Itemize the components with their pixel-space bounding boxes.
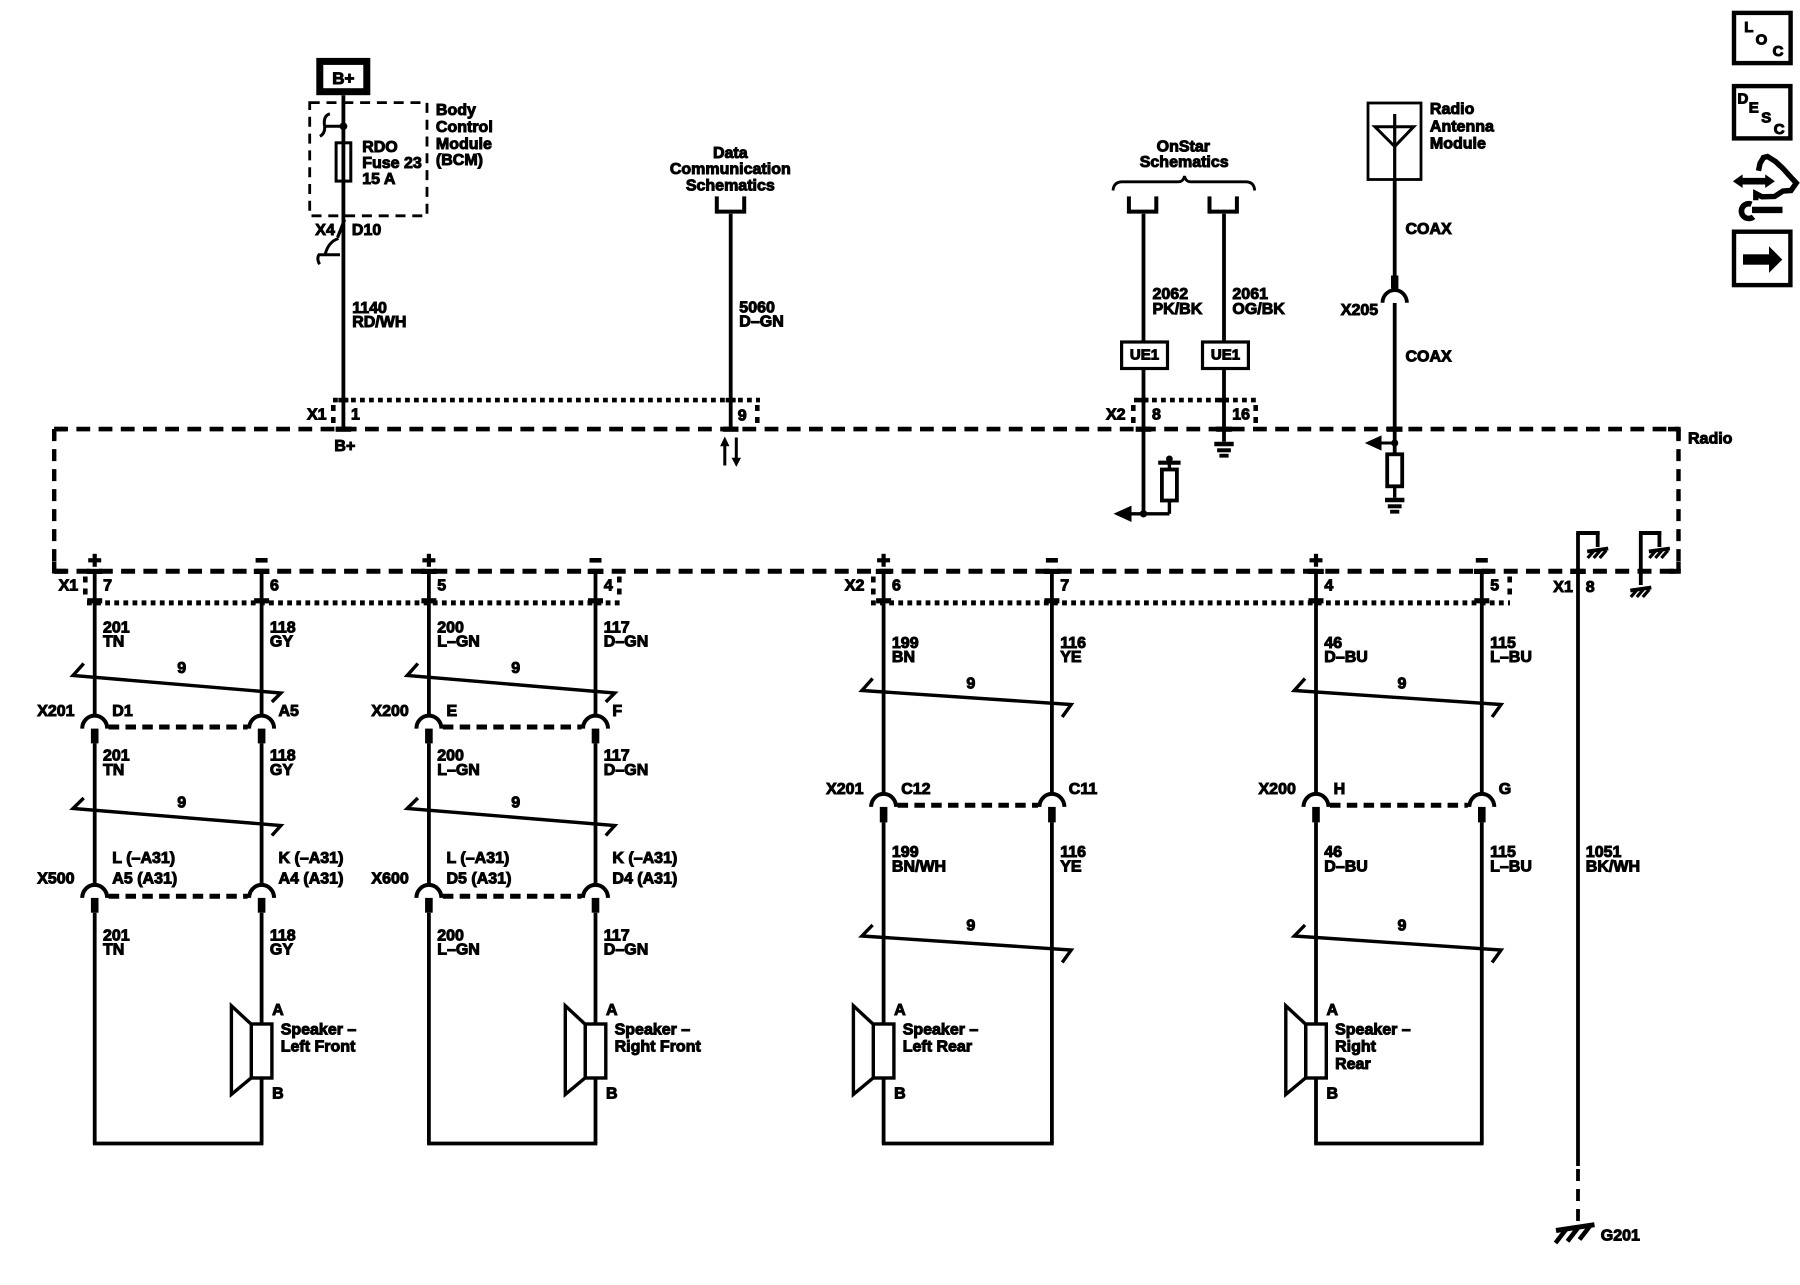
svg-text:8: 8	[1152, 407, 1161, 424]
svg-text:Module: Module	[436, 136, 492, 153]
pin 6 at x=261.6	[254, 560, 279, 603]
wire labels row2	[103, 748, 296, 779]
wire labels row3	[437, 927, 648, 958]
connector strip X2 top	[1106, 398, 1258, 432]
connector X4 pin D10	[315, 220, 381, 265]
svg-text:9: 9	[966, 675, 975, 692]
svg-text:Body: Body	[436, 102, 476, 119]
svg-text:H: H	[1334, 781, 1346, 798]
speaker ['Speaker –', 'Right Front']	[565, 1002, 701, 1103]
off-page connector to OnStar (left)	[1129, 196, 1156, 213]
svg-text:G201: G201	[1601, 1227, 1640, 1244]
svg-text:X200: X200	[1259, 781, 1296, 798]
Radio label	[1688, 430, 1733, 447]
twisted pair symbol 2	[1294, 918, 1501, 963]
svg-text:S: S	[1761, 110, 1771, 127]
svg-text:X600: X600	[371, 870, 408, 887]
battery positive terminal B+	[320, 61, 367, 91]
connector X200 pins E/F	[371, 703, 622, 744]
circuit wires 201/118 upper	[95, 574, 262, 717]
wire 2062 PK/BK	[1144, 214, 1203, 342]
connector X600	[371, 850, 677, 913]
svg-text:C11: C11	[1069, 781, 1098, 798]
svg-text:E: E	[447, 703, 458, 720]
connector strip X1 bottom (pins 7,6,5,4)	[59, 577, 622, 603]
svg-text:Schematics: Schematics	[1140, 154, 1229, 171]
svg-text:Left Rear: Left Rear	[903, 1039, 972, 1056]
radio internal ground B	[1639, 533, 1670, 585]
svg-text:Schematics: Schematics	[686, 178, 775, 195]
svg-text:9: 9	[177, 794, 186, 811]
svg-text:Fuse 23: Fuse 23	[362, 155, 422, 172]
svg-text:16: 16	[1232, 407, 1250, 424]
wire label 1140 RD/WH	[352, 300, 406, 331]
antenna input internal: arrow resistor ground	[1365, 431, 1405, 512]
svg-text:Antenna: Antenna	[1430, 118, 1494, 135]
svg-text:8: 8	[1586, 579, 1595, 596]
svg-text:BK/WH: BK/WH	[1586, 858, 1640, 875]
pin 7 at x=94.7	[87, 554, 112, 604]
svg-text:5: 5	[1490, 577, 1499, 594]
svg-text:X2: X2	[1106, 407, 1126, 424]
wires lower	[95, 913, 262, 1144]
svg-text:UE1: UE1	[1211, 346, 1240, 363]
wire labels row1	[1324, 635, 1532, 666]
brace	[1113, 176, 1255, 191]
svg-text:9: 9	[1397, 918, 1406, 935]
Radio Antenna Module box	[1368, 103, 1421, 180]
circuit wires 46/115 upper	[1316, 574, 1482, 794]
svg-text:X500: X500	[37, 870, 74, 887]
svg-text:B+: B+	[334, 438, 355, 455]
twisted pair symbol 1	[862, 675, 1071, 717]
pin 7 at x=1051.9	[1044, 560, 1069, 603]
ground at pin 16 inside radio	[1214, 431, 1233, 456]
svg-text:X1: X1	[59, 577, 79, 594]
svg-text:A4 (A31): A4 (A31)	[279, 870, 344, 887]
speaker loop wire	[1314, 1078, 1483, 1144]
pin X1 1 (B+)	[307, 405, 360, 455]
svg-text:X4: X4	[315, 222, 335, 239]
Body Control Module dashed box	[310, 103, 427, 216]
connector strip X2 bottom (pins 6,7,4,5)	[845, 577, 1512, 603]
svg-text:D–GN: D–GN	[604, 634, 648, 651]
pin 4 at x=595.5	[588, 560, 613, 603]
svg-text:A: A	[272, 1002, 284, 1019]
svg-text:A: A	[894, 1002, 906, 1019]
svg-text:F: F	[612, 703, 622, 720]
pin 8 internal circuit: resistor and arrow	[1114, 431, 1181, 522]
speaker ['Speaker –', 'Left Rear']	[853, 1002, 978, 1103]
svg-text:Right: Right	[1335, 1039, 1377, 1056]
svg-text:L: L	[1744, 19, 1753, 36]
coax wire lower	[1395, 303, 1452, 427]
circuit wires 200/117 upper	[429, 574, 596, 717]
svg-text:C: C	[1774, 121, 1785, 138]
pin 9 serial data	[723, 405, 760, 432]
coax wire upper	[1395, 180, 1452, 276]
connector strip X1 top (pins 1,9)	[333, 398, 760, 403]
pin 6 at x=883.6	[876, 554, 901, 604]
connector X201 pins C12/C11	[826, 781, 1097, 823]
svg-text:A: A	[606, 1002, 618, 1019]
splice UE1 (right)	[1203, 342, 1249, 369]
speaker loop wire	[427, 1078, 597, 1144]
svg-text:E: E	[1749, 100, 1759, 117]
svg-text:A: A	[1327, 1002, 1339, 1019]
connector X201 pins D1/A5	[37, 703, 299, 744]
svg-text:Radio: Radio	[1430, 101, 1475, 118]
wire 2061 OG/BK	[1224, 214, 1285, 342]
svg-text:Speaker –: Speaker –	[281, 1021, 357, 1038]
pin 5 at x=428.9	[421, 554, 446, 604]
svg-text:X205: X205	[1341, 302, 1378, 319]
radio internal ground A (to pin 8)	[1576, 533, 1608, 571]
svg-text:YE: YE	[1060, 649, 1082, 666]
wires lower	[884, 822, 1052, 1143]
svg-text:1: 1	[351, 406, 360, 423]
svg-text:RDO: RDO	[362, 139, 398, 156]
ground G201	[1556, 1225, 1641, 1245]
svg-text:L–BU: L–BU	[1490, 858, 1532, 875]
svg-text:Right Front: Right Front	[615, 1039, 702, 1056]
svg-text:GY: GY	[270, 942, 293, 959]
svg-text:9: 9	[511, 660, 520, 677]
BCM label	[436, 102, 493, 169]
svg-text:Communication: Communication	[670, 161, 791, 178]
svg-text:Data: Data	[713, 145, 748, 162]
OnStar Schematics label	[1140, 139, 1229, 172]
wire labels row1	[437, 619, 648, 650]
svg-text:A5 (A31): A5 (A31)	[112, 870, 177, 887]
svg-text:X201: X201	[826, 781, 863, 798]
wire labels row2	[437, 748, 648, 779]
wires to X2 pins	[1144, 369, 1225, 428]
wire 5060 D-GN	[731, 214, 784, 428]
svg-text:L (–A31): L (–A31)	[112, 850, 175, 867]
svg-text:OnStar: OnStar	[1157, 139, 1210, 156]
speaker ['Speaker –', 'Right', 'Rear']	[1286, 1002, 1411, 1103]
svg-text:L–BU: L–BU	[1490, 649, 1532, 666]
connector X200 pins H/G	[1259, 781, 1512, 823]
svg-text:RD/WH: RD/WH	[352, 314, 406, 331]
chassis ground below radio	[1630, 588, 1651, 598]
svg-text:OG/BK: OG/BK	[1232, 301, 1285, 318]
svg-text:D10: D10	[352, 222, 381, 239]
svg-text:D–GN: D–GN	[604, 762, 648, 779]
svg-text:6: 6	[270, 577, 279, 594]
svg-text:6: 6	[892, 577, 901, 594]
svg-text:9: 9	[1397, 675, 1406, 692]
twisted pair symbol 2	[862, 918, 1071, 963]
off-page connector to OnStar (right)	[1210, 196, 1237, 213]
svg-text:D1: D1	[112, 703, 133, 720]
icon DESC	[1734, 86, 1790, 138]
svg-text:X1: X1	[307, 406, 327, 423]
svg-text:K (–A31): K (–A31)	[612, 850, 677, 867]
svg-text:4: 4	[604, 577, 613, 594]
svg-text:YE: YE	[1060, 858, 1082, 875]
svg-text:X2: X2	[845, 577, 865, 594]
svg-text:4: 4	[1324, 577, 1333, 594]
svg-text:TN: TN	[103, 634, 124, 651]
svg-text:L–GN: L–GN	[437, 942, 480, 959]
wires middle	[429, 743, 596, 885]
svg-text:X1: X1	[1553, 579, 1573, 596]
pin X1 8	[1553, 569, 1595, 596]
svg-text:G: G	[1499, 781, 1511, 798]
svg-text:UE1: UE1	[1130, 346, 1159, 363]
speaker loop wire	[882, 1078, 1054, 1144]
connector X500	[37, 850, 343, 913]
wire labels row1	[892, 635, 1086, 666]
svg-text:9: 9	[738, 408, 747, 425]
svg-text:D–BU: D–BU	[1324, 649, 1368, 666]
svg-text:D–GN: D–GN	[739, 313, 783, 330]
wire 1051 BK/WH	[1578, 574, 1640, 1166]
svg-text:D: D	[1738, 90, 1749, 107]
circuit wires 199/116 upper	[884, 574, 1052, 794]
svg-text:7: 7	[1060, 577, 1069, 594]
svg-text:BN: BN	[892, 649, 915, 666]
svg-text:B: B	[272, 1086, 284, 1103]
svg-text:B: B	[1327, 1086, 1339, 1103]
svg-text:Speaker –: Speaker –	[903, 1021, 979, 1038]
svg-text:K (–A31): K (–A31)	[279, 850, 344, 867]
wire labels row2	[892, 844, 1086, 875]
svg-text:X201: X201	[37, 703, 74, 720]
svg-text:Speaker –: Speaker –	[615, 1021, 691, 1038]
wire labels row2	[1324, 844, 1532, 875]
svg-text:Speaker –: Speaker –	[1335, 1021, 1411, 1038]
wire labels row1	[103, 619, 296, 650]
Radio Antenna Module label	[1430, 101, 1494, 153]
icon route with wrench	[1733, 157, 1796, 219]
wire labels row3	[103, 927, 296, 958]
svg-text:Left Front: Left Front	[281, 1039, 356, 1056]
svg-text:D5 (A31): D5 (A31)	[447, 870, 512, 887]
Radio dashed box	[54, 429, 1681, 573]
svg-text:COAX: COAX	[1406, 221, 1453, 238]
twisted pair symbol 2	[407, 794, 615, 835]
twisted pair symbol 1	[407, 660, 615, 702]
svg-text:C: C	[1773, 43, 1784, 60]
icon next arrow	[1734, 232, 1790, 285]
pin 4 at x=1316	[1308, 554, 1333, 604]
fuse RDO Fuse 23 15 A	[336, 139, 422, 188]
svg-text:TN: TN	[103, 762, 124, 779]
svg-text:5: 5	[437, 577, 446, 594]
twisted pair symbol 1	[1294, 675, 1501, 717]
icon LOC	[1734, 13, 1791, 63]
svg-text:B+: B+	[332, 69, 354, 88]
svg-text:7: 7	[103, 577, 112, 594]
svg-text:BN/WH: BN/WH	[892, 858, 946, 875]
svg-text:X200: X200	[371, 703, 408, 720]
coax entry tick	[1387, 427, 1403, 432]
svg-text:TN: TN	[103, 942, 124, 959]
svg-text:D–GN: D–GN	[604, 942, 648, 959]
twisted pair symbol 1	[73, 660, 281, 702]
svg-text:9: 9	[966, 918, 975, 935]
off-page connector symbol	[717, 196, 744, 213]
pin 5 at x=1481.8	[1474, 560, 1499, 603]
svg-text:(BCM): (BCM)	[436, 152, 483, 169]
svg-text:B: B	[894, 1086, 906, 1103]
pigtail connector inside BCM	[320, 114, 347, 137]
wires lower	[429, 913, 596, 1144]
dashed ground lead	[1576, 1169, 1580, 1226]
wires middle	[95, 743, 262, 885]
svg-text:GY: GY	[270, 762, 293, 779]
svg-text:COAX: COAX	[1406, 348, 1453, 365]
wires lower	[1316, 822, 1482, 1143]
speaker loop wire	[93, 1078, 264, 1144]
twisted pair symbol 2	[73, 794, 281, 835]
svg-text:L–GN: L–GN	[437, 634, 480, 651]
svg-text:Rear: Rear	[1335, 1056, 1371, 1073]
off-page Data Communication Schematics	[670, 145, 791, 195]
bidirectional data arrows	[720, 437, 741, 467]
svg-text:Control: Control	[436, 119, 493, 136]
wire B+ feed 1140 RD/WH	[341, 95, 345, 427]
svg-text:O: O	[1756, 31, 1768, 48]
svg-text:9: 9	[511, 794, 520, 811]
svg-text:D–BU: D–BU	[1324, 858, 1368, 875]
speaker ['Speaker –', 'Left Front']	[231, 1002, 356, 1103]
svg-text:Module: Module	[1430, 136, 1486, 153]
svg-text:L (–A31): L (–A31)	[447, 850, 510, 867]
svg-text:9: 9	[177, 660, 186, 677]
svg-text:D4 (A31): D4 (A31)	[612, 870, 677, 887]
svg-text:PK/BK: PK/BK	[1153, 301, 1203, 318]
in-line connector X205	[1341, 276, 1407, 319]
svg-text:L–GN: L–GN	[437, 762, 480, 779]
svg-text:C12: C12	[901, 781, 930, 798]
svg-text:A5: A5	[279, 703, 300, 720]
splice UE1 (left)	[1122, 342, 1168, 369]
svg-text:B: B	[606, 1086, 618, 1103]
svg-text:15 A: 15 A	[362, 171, 396, 188]
svg-text:GY: GY	[270, 634, 293, 651]
svg-text:Radio: Radio	[1688, 430, 1733, 447]
